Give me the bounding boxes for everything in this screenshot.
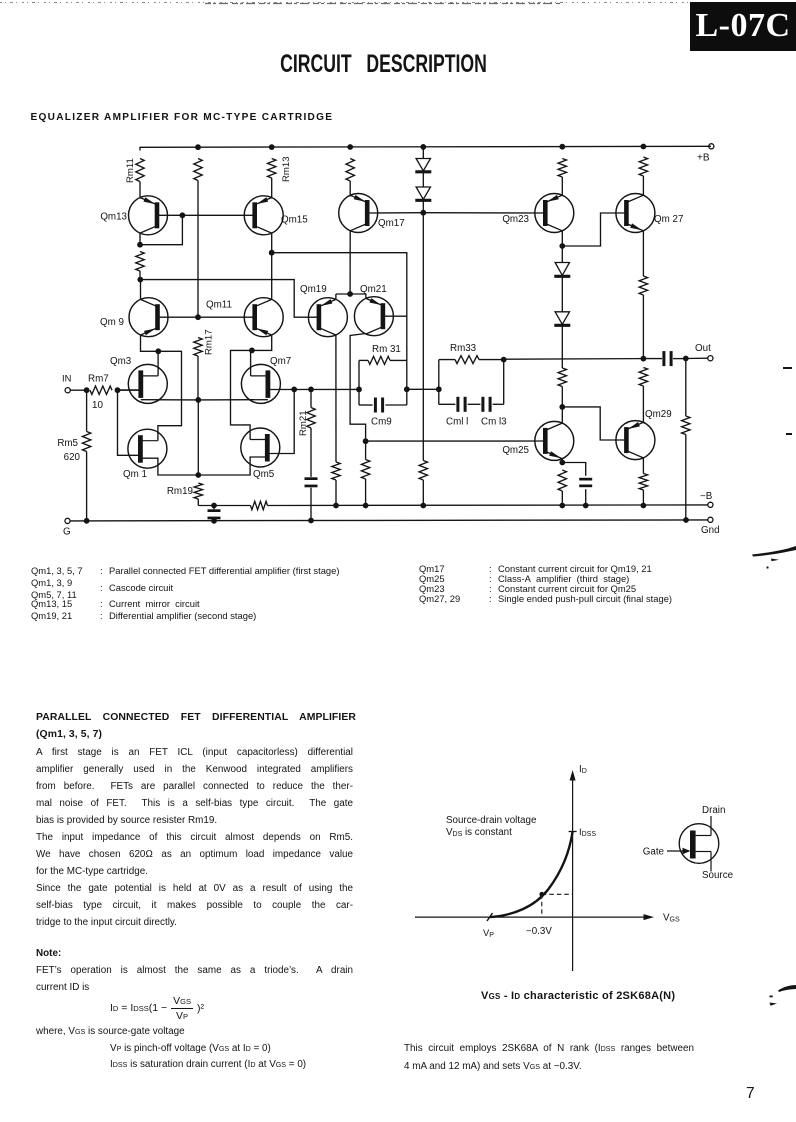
node FET sources upper (195, 397, 201, 403)
svg-text:Qm11: Qm11 (206, 300, 232, 311)
node Qm25 -B (559, 503, 565, 509)
scan artifact marks (752, 367, 796, 1006)
svg-text:Qm19: Qm19 (300, 284, 327, 295)
svg-text:Rm5: Rm5 (57, 438, 78, 449)
FET Qm1 (123, 429, 167, 480)
wire Qm3 drain (157, 351, 159, 376)
node Qm17/Qm23 base (420, 210, 426, 216)
graph: VP tick (483, 913, 494, 939)
wire Qm25 to Qm29 base (562, 407, 626, 440)
node Rm5 ground (84, 518, 90, 524)
wire R to Qm23 (561, 177, 563, 196)
wire to Rm33 (407, 388, 439, 390)
transistor Qm9 (100, 298, 168, 337)
model badge L-07C (690, 2, 796, 51)
svg-text:Qm15: Qm15 (281, 215, 308, 226)
svg-text:Gnd: Gnd (701, 525, 720, 536)
transistor Qm27 (616, 194, 684, 233)
resistor R-Qm27-collector (639, 157, 647, 176)
wire Qm19 emitter (335, 294, 337, 299)
svg-text:Out: Out (695, 343, 711, 354)
wire R to Qm29 (643, 386, 671, 422)
wire Qm9 emitter (141, 335, 159, 351)
resistor Rm7 (88, 374, 112, 412)
wire Qm21 collector (350, 334, 366, 442)
wire Rm5 upper (86, 390, 88, 431)
wire Rm33 box left (438, 360, 440, 405)
wire Rm33 box right (503, 360, 505, 405)
wire bias chain upper (197, 181, 199, 318)
node Rm21 top (308, 387, 314, 393)
node rail-C2 (195, 144, 201, 150)
wire Qm21 emitter (365, 294, 367, 298)
node Rm31 right (404, 386, 410, 392)
resistor R-Qm23 (558, 368, 566, 387)
resistor R-Qm23-emitter (558, 159, 566, 178)
capacitor C-out (643, 351, 685, 366)
transistor Qm11 (206, 298, 283, 337)
wire Qm7 source (198, 399, 268, 401)
wire D2 to base node (422, 202, 424, 213)
svg-text:Rm7: Rm7 (88, 374, 109, 385)
body heading (36, 709, 356, 744)
node bypass cap top (211, 503, 217, 509)
wire Qm25 base line (366, 440, 546, 442)
svg-text:Rm 31: Rm 31 (372, 344, 401, 355)
svg-text:Gate: Gate (643, 847, 665, 858)
resistor R-output-bias (639, 368, 647, 387)
node rail-C7 (347, 144, 353, 150)
node second stage emitters (347, 291, 353, 297)
wire ground rail (70, 520, 708, 521)
svg-text:IDSS: IDSS (579, 826, 596, 838)
terminal G (63, 518, 71, 537)
wire EQ out to output node (504, 358, 644, 361)
terminal -B (700, 491, 713, 507)
capacitor C-Rm21 (305, 477, 318, 487)
wire Qm27 emitter (642, 231, 644, 276)
terminal +B (697, 144, 714, 164)
graph: annotation (446, 815, 537, 838)
resistor Rm13 (268, 156, 293, 182)
wire Qm19 collector (335, 335, 337, 463)
wire base node to Qm23 (423, 212, 545, 214)
legend left column (30, 564, 32, 566)
terminal IN (62, 373, 71, 393)
wire Rm31 box right (406, 360, 408, 405)
resistor R-Qm19-load (332, 462, 340, 480)
node output (641, 356, 647, 362)
wire Qm1 drain jog (158, 351, 182, 440)
node load ground (683, 517, 689, 523)
node A (first stage left output) (137, 277, 143, 283)
resistor R-Qm17-emitter (346, 159, 354, 182)
resistor Rm17 (194, 329, 215, 356)
diode D2 (415, 187, 431, 200)
resistor R-Qm27-emitter (639, 276, 647, 295)
svg-text:Qm3: Qm3 (110, 356, 132, 367)
wire +B rail (140, 146, 711, 150)
wire Rm21 to cap (310, 428, 312, 477)
resistor Rm11 (125, 158, 144, 183)
node Qm25 emitter (559, 460, 565, 466)
node FET sources lower (195, 472, 201, 478)
node C10 -B (420, 503, 426, 509)
wire Qm3 gate (118, 389, 141, 391)
svg-text:Rm17: Rm17 (204, 329, 215, 355)
wire node to D3 (561, 246, 563, 263)
capacitor Cm11 (446, 397, 468, 428)
node Rm21 ground (308, 518, 314, 524)
wire Cm9 branch (359, 404, 407, 406)
graph: IDSS tick and label (569, 826, 597, 838)
node Qm13 collector (137, 242, 143, 248)
node Qm5 gate tap (291, 387, 297, 393)
node Qm25 collector (559, 404, 565, 410)
svg-text:Drain: Drain (702, 805, 725, 816)
resistor Rm5 (57, 432, 90, 464)
node Qm23 collector (559, 243, 565, 249)
svg-text:Qm29: Qm29 (645, 409, 672, 420)
wire R to output node (642, 295, 644, 359)
wire Qm11 base (198, 316, 255, 318)
diode D4 (554, 312, 570, 326)
wire Rm31 box left (358, 360, 360, 405)
wire R to -B (561, 491, 563, 506)
svg-text:10: 10 (92, 400, 103, 411)
svg-text:Qm 1: Qm 1 (123, 469, 147, 480)
svg-text:Qm 9: Qm 9 (100, 317, 124, 328)
wire R to -B rail (422, 480, 424, 506)
transistor Qm13 (100, 196, 167, 235)
wire Rm13 to Qm15 (271, 178, 273, 199)
node cap -B (583, 503, 589, 509)
wire R to Qm27 (642, 176, 644, 196)
wire to node A (139, 271, 141, 280)
wire Rm17 to sources (197, 356, 199, 400)
transistor Qm15 (244, 196, 308, 235)
wire load to ground (685, 435, 687, 521)
graph: VGS axis (415, 913, 680, 924)
wire Qm5 source (198, 457, 267, 475)
wire R to -B (335, 480, 337, 506)
node output cap (683, 356, 689, 362)
node rail-C10 (420, 144, 426, 150)
wire Rm5 lower (86, 452, 88, 521)
graph: transfer curve (490, 832, 573, 918)
svg-text:Cml l: Cml l (446, 417, 468, 428)
wire Qm15 collector (271, 233, 273, 253)
wire Rm11 to Qm13 (139, 182, 141, 199)
wire to Out terminal (686, 357, 708, 359)
svg-text:Source: Source (702, 870, 734, 881)
wire Rm21 upper (310, 389, 312, 407)
node IN-Rm5 (84, 387, 90, 393)
svg-text:VDS is constant: VDS is constant (446, 827, 512, 838)
bottom right paragraph (404, 1040, 694, 1076)
node B (Qm15/Qm11 collectors) (269, 250, 275, 256)
wire emitters join (336, 293, 366, 295)
node Rm31 left (356, 387, 362, 393)
wire Qm15 base (current mirror) (182, 214, 254, 216)
wire node B to Qm21 base / feedback (272, 253, 407, 361)
svg-text:620: 620 (64, 452, 81, 463)
page title (115, 52, 652, 77)
svg-text:Cm9: Cm9 (371, 417, 392, 428)
resistor R-mirror-left (136, 252, 144, 272)
wire Rm33 top-right (479, 359, 504, 361)
wire R to Qm25 collector node (561, 387, 563, 407)
wire Qm11 emitter (252, 335, 272, 350)
diode D3 (554, 263, 570, 277)
capacitor Cm13 (481, 397, 507, 428)
svg-text:VGS: VGS (663, 913, 680, 924)
resistor Rm31 (368, 344, 401, 364)
svg-text:−B: −B (700, 491, 713, 502)
capacitor Cm9 (371, 398, 392, 428)
svg-text:Qm7: Qm7 (270, 356, 291, 367)
wire R to -B (642, 490, 644, 506)
wire Qm23 to Qm27 base (562, 213, 626, 246)
transistor Qm21 (354, 284, 393, 336)
svg-text:Qm17: Qm17 (378, 218, 405, 229)
diode D1 (415, 159, 431, 172)
wire Rm19 to -B (197, 499, 199, 506)
svg-text:G: G (63, 527, 71, 538)
wire Qm1 gate (118, 390, 141, 455)
wire cap to ground (310, 488, 312, 521)
svg-text:Qm5: Qm5 (253, 469, 275, 480)
body paragraphs (36, 744, 353, 931)
wire Qm9 base (158, 316, 199, 318)
section heading (31, 112, 334, 123)
capacitor C-source-bypass (208, 506, 221, 521)
wire Qm25 collector lead (561, 407, 563, 423)
resistor Rm21 (298, 408, 315, 437)
wire Qm9 collector (140, 280, 142, 300)
transistor Qm23 (502, 194, 573, 233)
wire D3-D4 (561, 278, 563, 312)
svg-text:VP: VP (483, 927, 494, 939)
wire Qm5 drain jog (231, 350, 252, 439)
FET Qm5 (241, 428, 280, 480)
svg-text:Rm21: Rm21 (298, 410, 309, 436)
node cascode right (249, 348, 255, 354)
page number (746, 1085, 755, 1103)
svg-text:Rm11: Rm11 (125, 158, 136, 183)
wire D1-D2 (422, 173, 424, 187)
wire diode column drop (422, 213, 424, 461)
wire D4 to R (561, 327, 563, 369)
wire Qm23 collector (561, 231, 563, 246)
wire Qm13 collector tie (140, 215, 182, 244)
terminal Gnd (701, 517, 720, 536)
node Qm13 base-collector tie (180, 212, 186, 218)
graph caption (481, 990, 675, 1002)
wire Cm11/Cm13 branch (439, 403, 504, 405)
svg-text:Qm13: Qm13 (100, 212, 127, 223)
wire IN (70, 389, 86, 391)
node rail-C3 (269, 144, 275, 150)
transistor Qm29 (616, 421, 655, 460)
node Qm29 -B (641, 503, 647, 509)
node Rm33 left (436, 386, 442, 392)
wire Qm13 collector lead (139, 233, 141, 245)
resistor Rm19 (167, 483, 203, 499)
transistor Qm19 (300, 284, 347, 337)
svg-text:Source-drain voltage: Source-drain voltage (446, 815, 537, 826)
scan speckle top edge (0, 3, 796, 4)
wire -B rail left (198, 505, 250, 507)
svg-text:Qm25: Qm25 (502, 445, 529, 456)
wire Rm31 top-left (359, 359, 368, 361)
node Qm21 collector / Qm25 base (363, 438, 369, 444)
node Rm7 out (115, 387, 121, 393)
svg-text:IN: IN (62, 373, 71, 384)
wire node A to Qm19 base (140, 280, 318, 318)
node Qm21 -B (363, 503, 369, 509)
node Qm19 -B (333, 503, 339, 509)
FET symbol 2SK68A (643, 805, 734, 881)
svg-text:−0.3V: −0.3V (526, 926, 552, 937)
resistor R-Qm25-emitter (558, 470, 566, 491)
FET Qm7 (241, 356, 291, 403)
wire emitter to cap (562, 463, 585, 476)
FET Qm3 (110, 356, 167, 403)
wire Qm1 source (140, 458, 198, 475)
graph: ID axis (570, 764, 587, 971)
wire R to Qm17 (349, 181, 351, 197)
resistor R-C10 (419, 461, 427, 481)
wire -B rail (268, 504, 708, 507)
wire Qm17 collector drop (349, 231, 351, 294)
wire sources drop (197, 400, 199, 475)
wire Qm29 emitter lower (642, 458, 644, 474)
terminal Out (695, 343, 713, 361)
formula (110, 995, 204, 1022)
capacitor C-Qm25-bypass (579, 478, 592, 487)
wire Qm3 source (141, 399, 199, 401)
wire Rm31 top-right (390, 359, 407, 361)
resistor R-Qm21-load (361, 460, 369, 480)
wire Qm7 gate (268, 388, 359, 390)
wire Qm13 base to node (157, 214, 182, 216)
wire Qm7 drain (250, 350, 252, 376)
resistor R-Qm29 (639, 474, 647, 491)
node Rm33 out (501, 357, 507, 363)
wire Qm25 emitter (561, 459, 563, 463)
wire cap to -B (585, 489, 587, 505)
svg-text:Qm23: Qm23 (502, 214, 529, 225)
transistor Qm25 (502, 421, 573, 460)
wire Rm33 top-left (439, 359, 455, 361)
legend right column (418, 562, 420, 564)
wire Qm21 load lower (365, 441, 367, 505)
wire rail to D1 (422, 147, 424, 159)
graph: dashed operating point (526, 892, 573, 937)
wire Rm7 to Qm3 gate (118, 389, 141, 391)
node rail-C16 (641, 144, 647, 150)
wire Qm21 base (383, 315, 407, 317)
svg-text:ID: ID (579, 764, 587, 775)
wire Qm5 gate (267, 389, 294, 453)
resistor R-bias-top (194, 159, 202, 181)
node Qm9/Qm11 base (195, 314, 201, 320)
svg-text:Rm19: Rm19 (167, 486, 193, 497)
transistor Qm17 (339, 194, 405, 233)
node bypass cap bottom (211, 518, 217, 524)
node cascode left (155, 348, 161, 354)
wire Qm11 collector (271, 253, 273, 300)
svg-text:Cm l3: Cm l3 (481, 417, 507, 428)
svg-text:+B: +B (697, 153, 710, 164)
resistor R-load (682, 416, 690, 435)
svg-text:Rm13: Rm13 (281, 156, 292, 182)
svg-text:Rm33: Rm33 (450, 343, 477, 354)
resistor Rm33 (450, 343, 479, 364)
resistor R-source-bias (251, 501, 268, 509)
node rail-C13 (559, 144, 565, 150)
svg-text:Qm 27: Qm 27 (654, 214, 683, 225)
wire Qm17 base row (367, 212, 423, 214)
wire out node to load (685, 359, 687, 417)
